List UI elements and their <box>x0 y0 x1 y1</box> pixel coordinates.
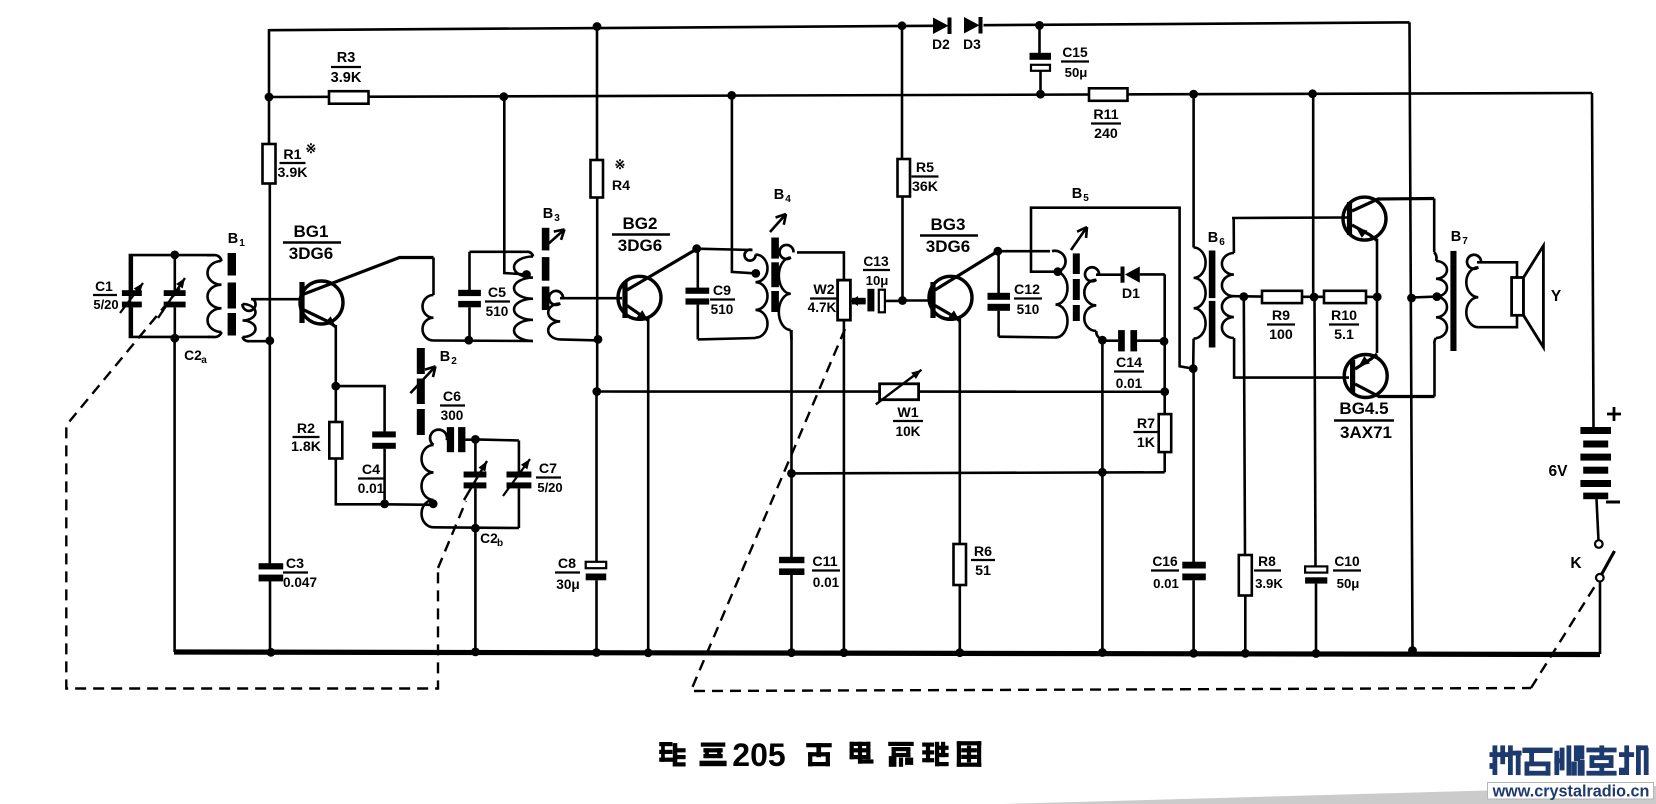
diode D2 <box>933 18 952 35</box>
watermark 矿石收音机 <box>1490 745 1649 775</box>
label C2a <box>184 348 207 366</box>
gang dash: tuning C2a-C2b <box>66 288 466 688</box>
svg-text:C2: C2 <box>184 348 202 363</box>
label C2b <box>480 531 503 549</box>
label BG3 3DG6 <box>920 215 978 256</box>
label R5 36K <box>912 160 939 195</box>
capacitor C9 <box>686 249 710 340</box>
wire: AGC bus (W1 wire) <box>597 390 1165 393</box>
wire: tap link <box>1412 295 1437 298</box>
svg-text:C15: C15 <box>1062 45 1088 60</box>
wire: R10 to emitter node <box>1366 295 1377 298</box>
label W2 4.7K <box>808 282 838 315</box>
wire: C2b box right upper <box>518 441 521 473</box>
transformer B5 secondary coil <box>1084 267 1102 339</box>
resistor R7 <box>1159 414 1172 452</box>
wire: B4 tap to supply <box>732 96 756 274</box>
wire: R9-R10 link <box>1302 295 1324 298</box>
label R4 asterisk <box>615 157 626 172</box>
resistor R11 <box>1089 88 1128 101</box>
watermark www.crystalradio.cn <box>1492 783 1650 801</box>
svg-text:D2: D2 <box>932 37 950 52</box>
transistor BG4.5 lower <box>1344 354 1434 398</box>
transformer B7 core <box>1450 251 1456 351</box>
svg-text:a: a <box>201 355 207 366</box>
svg-text:C12: C12 <box>1014 282 1040 298</box>
node: W2 ground <box>840 648 849 657</box>
node: B1 secondary bottom junction <box>265 336 274 345</box>
node: supply ground end <box>1408 646 1417 655</box>
transformer B4 secondary coil <box>779 245 794 340</box>
wire: B3 secondary bottom <box>560 339 599 340</box>
node: C2a top <box>170 251 179 260</box>
wire: B6 primary bottom <box>1192 339 1195 369</box>
svg-text:R4: R4 <box>612 178 630 194</box>
wire: supply drop x=1410 <box>1410 22 1413 650</box>
variable capacitor C2b <box>464 439 487 528</box>
oscillator coil (B2 winding) <box>422 430 448 528</box>
node: B3 sec bottom junction <box>594 335 603 344</box>
resistor R8 <box>1239 555 1252 596</box>
label R6 51 <box>971 544 995 579</box>
wire: B5 secondary top to D1 <box>1096 273 1121 276</box>
svg-text:100: 100 <box>1269 327 1293 343</box>
svg-text:30μ: 30μ <box>556 577 579 592</box>
svg-text:※: ※ <box>306 141 317 156</box>
svg-text:C6: C6 <box>443 389 461 405</box>
node: B7 center tap <box>1433 292 1442 301</box>
transistor BG3 <box>929 251 998 321</box>
svg-text:R6: R6 <box>974 544 992 560</box>
gang dash: W2-switch K <box>691 329 1598 691</box>
svg-text:10K: 10K <box>896 424 921 439</box>
label B4 <box>774 187 791 205</box>
node: C2b bottom (B) <box>471 524 480 533</box>
wire: C2b box bottom <box>434 526 519 529</box>
transformer B1 core <box>228 253 236 336</box>
svg-text:R9: R9 <box>1272 308 1290 324</box>
wire: R7 bottom lead <box>1163 452 1166 472</box>
node: C11 ground <box>787 648 796 657</box>
svg-text:C11: C11 <box>812 554 837 570</box>
watermark gray band <box>1003 783 1656 804</box>
wire: second supply rail <box>269 93 1592 97</box>
wire: tank bottom <box>434 339 534 342</box>
svg-text:D1: D1 <box>1122 286 1140 302</box>
svg-text:BG1: BG1 <box>294 222 329 241</box>
svg-text:51: 51 <box>975 563 991 579</box>
label battery plus <box>1607 407 1621 421</box>
label Y <box>1551 288 1562 305</box>
wire: C12 bottom to coil <box>999 335 1057 338</box>
wire: bias feed drop x=1314 <box>1312 94 1315 297</box>
node: C2b top (A) <box>471 435 480 444</box>
svg-text:W1: W1 <box>897 405 918 421</box>
capacitor C12 <box>988 251 1011 337</box>
svg-text:1K: 1K <box>1137 435 1156 451</box>
wire: R5 bottom to BG3 base <box>901 197 904 301</box>
label R1 asterisk <box>306 141 317 156</box>
svg-text:R3: R3 <box>337 50 356 66</box>
label C9 510 <box>710 283 735 317</box>
node: R6 ground <box>955 648 964 657</box>
svg-text:7: 7 <box>1462 236 1468 247</box>
wire: BG3 collector to B5 <box>998 250 1050 253</box>
svg-text:240: 240 <box>1094 126 1118 142</box>
svg-text:D3: D3 <box>963 37 981 52</box>
label R7 1K <box>1134 416 1159 451</box>
wire: tap stub <box>1234 295 1262 298</box>
resistor R5 line <box>901 26 904 159</box>
svg-text:B: B <box>1451 229 1461 245</box>
svg-text:5.1: 5.1 <box>1334 327 1354 343</box>
svg-text:0.01: 0.01 <box>813 575 840 590</box>
label R9 100 <box>1267 308 1295 343</box>
transformer B7 secondary coil <box>1466 255 1481 327</box>
transistor BG2 <box>618 249 697 321</box>
label C8 30u <box>555 556 580 592</box>
wire: top supply rail <box>269 22 1410 30</box>
svg-text:BG4.5: BG4.5 <box>1339 399 1388 418</box>
svg-text:C13: C13 <box>863 254 889 269</box>
node: BG3 base node <box>898 296 907 305</box>
node: AGC takeoff <box>787 469 796 478</box>
svg-text:C8: C8 <box>558 556 576 572</box>
resistor R1 <box>263 144 276 184</box>
svg-text:4: 4 <box>785 194 791 205</box>
node: B3 primary tap <box>522 270 531 279</box>
wire: C2b to ground <box>474 528 477 652</box>
resistor R9 <box>1262 291 1302 303</box>
B5 feedback box <box>1031 208 1193 369</box>
svg-text:3.9K: 3.9K <box>331 70 362 86</box>
resistor R3 <box>329 91 369 104</box>
node: C2a bottom <box>170 334 179 343</box>
wire: tap to supply <box>504 97 526 275</box>
svg-text:B: B <box>1208 230 1218 246</box>
svg-text:0.01: 0.01 <box>1153 576 1179 591</box>
svg-text:3DG6: 3DG6 <box>618 236 662 255</box>
node: osc coil tap <box>429 499 438 508</box>
capacitor C5 <box>458 252 481 340</box>
transformer B2 core <box>417 348 425 435</box>
label R11 240 <box>1091 107 1121 142</box>
label C4 0.01 <box>358 462 385 496</box>
tickler winding <box>423 295 434 341</box>
node: C8 ground <box>592 648 601 657</box>
svg-text:b: b <box>497 538 503 549</box>
svg-text:K: K <box>1570 555 1582 572</box>
svg-text:C5: C5 <box>488 285 506 301</box>
svg-text:B: B <box>440 349 450 365</box>
tuning arrow B2 <box>410 366 435 393</box>
node: supply to B7 tap <box>1407 294 1416 303</box>
label BG4.5 3AX71 <box>1334 399 1394 442</box>
svg-text:3DG6: 3DG6 <box>289 244 333 263</box>
svg-text:R1: R1 <box>283 147 301 163</box>
svg-text:C14: C14 <box>1116 355 1142 371</box>
svg-text:205: 205 <box>732 737 785 773</box>
wire: W2 bottom to ground <box>843 320 846 652</box>
wire: lower collector to B7 <box>1433 344 1436 397</box>
resistor R2 <box>329 422 342 459</box>
capacitor C14 <box>1102 330 1164 351</box>
wire: R8 drop <box>1244 297 1245 555</box>
wire: switch to ground <box>1599 582 1602 655</box>
node: AGC wire left end <box>592 387 601 396</box>
wire: B4 secondary bottom drop <box>790 330 793 473</box>
node: emitters junction <box>1373 293 1382 302</box>
wire: B6 sec top to upper base <box>1232 216 1347 219</box>
node: BG2 collector node <box>692 244 701 253</box>
label B3 <box>543 206 560 224</box>
wire: AGC lower bus <box>792 472 1165 473</box>
wire: B6 primary feed <box>1192 94 1195 248</box>
node: R8 ground <box>1241 649 1250 658</box>
label B6 <box>1208 230 1225 248</box>
label BG1 3DG6 <box>283 222 341 263</box>
wire: battery feed <box>1592 93 1594 427</box>
svg-text:36K: 36K <box>912 179 939 195</box>
svg-text:0.01: 0.01 <box>358 481 385 496</box>
capacitor C3 <box>259 563 284 652</box>
wire: tank top <box>470 251 523 254</box>
svg-text:0.01: 0.01 <box>1116 376 1143 391</box>
capacitor C16 <box>1182 562 1206 653</box>
label B7 <box>1451 229 1468 247</box>
svg-text:B: B <box>543 206 553 222</box>
svg-text:C10: C10 <box>1334 554 1360 569</box>
wire: R8 to ground <box>1244 596 1247 654</box>
label R1 3.9K <box>278 147 309 181</box>
node: C14 left <box>1098 336 1107 345</box>
label C5 510 <box>485 285 510 319</box>
transformer B3 secondary coil <box>548 291 563 340</box>
wire: B4 sec drop to C11 <box>790 473 793 557</box>
svg-text:50μ: 50μ <box>1337 576 1360 591</box>
resistor R4 line <box>596 27 599 160</box>
svg-text:R5: R5 <box>916 160 934 176</box>
battery 6V <box>1580 427 1611 499</box>
capacitor C13 (electrolytic) <box>867 289 902 313</box>
wire: speaker top lead <box>1477 262 1517 277</box>
wire: R4 bottom to AGC node <box>596 198 599 392</box>
node: rails junction <box>265 93 274 102</box>
wire: emitter node to C4 <box>336 386 385 432</box>
tuning arrow B5 <box>1071 227 1087 250</box>
node: B6 center tap <box>1239 292 1248 301</box>
diode D1 <box>1121 267 1165 283</box>
capacitor C1 (trimmer) <box>120 255 143 337</box>
svg-text:10μ: 10μ <box>866 273 889 288</box>
svg-text:2: 2 <box>451 356 457 367</box>
node: R5 top <box>898 21 907 30</box>
node: C2b ground <box>471 648 480 657</box>
wire: C9 tank bottom <box>698 338 756 339</box>
transformer B4 primary coil <box>745 250 768 338</box>
label C14 0.01 <box>1114 355 1144 391</box>
wire: x=1314 down to C10 <box>1315 297 1316 566</box>
svg-text:C16: C16 <box>1152 554 1178 569</box>
transistor BG1 <box>299 258 433 328</box>
capacitor C8 (electrolytic) <box>586 562 607 652</box>
node: detector ground <box>1098 648 1107 657</box>
wire: R6 to ground <box>958 585 961 652</box>
svg-text:300: 300 <box>441 408 464 423</box>
node: C10 ground <box>1312 649 1321 658</box>
svg-text:3DG6: 3DG6 <box>926 237 970 256</box>
svg-text:C9: C9 <box>713 283 731 299</box>
label C16 0.01 <box>1151 554 1179 591</box>
wire: lower emitter rise <box>1376 297 1379 353</box>
svg-text:510: 510 <box>1017 302 1040 317</box>
resistor R10 <box>1324 291 1366 303</box>
svg-text:510: 510 <box>711 302 734 317</box>
svg-text:C1: C1 <box>95 279 113 294</box>
label B1 <box>228 231 245 249</box>
label BG2 3DG6 <box>612 214 670 255</box>
node: R4 top <box>593 22 602 31</box>
svg-text:3.9K: 3.9K <box>1255 576 1283 591</box>
wire: tank bottom to ground left end <box>173 338 176 652</box>
tuning arrow B3 <box>549 229 565 243</box>
resistor R6 <box>954 544 967 585</box>
svg-text:R8: R8 <box>1258 554 1276 569</box>
variable capacitor C2a <box>158 254 186 340</box>
label C12 510 <box>1014 282 1042 317</box>
svg-text:Y: Y <box>1551 288 1562 305</box>
wire: detector line down <box>1101 340 1104 472</box>
svg-text:6: 6 <box>1219 237 1225 248</box>
label D1 <box>1122 286 1140 302</box>
wire: R2 bottom corner <box>336 459 385 505</box>
label C3 0.047 <box>283 556 317 590</box>
label C6 300 <box>440 389 465 423</box>
wiper W2 <box>850 296 865 306</box>
wire: D1 drop <box>1163 274 1166 341</box>
wire: left rail drop x=269 <box>268 29 271 97</box>
resistor R4 <box>591 160 604 198</box>
label C7 5/20 <box>536 461 563 495</box>
svg-text:50μ: 50μ <box>1065 65 1088 80</box>
svg-text:5/20: 5/20 <box>93 297 118 312</box>
svg-text:C2: C2 <box>480 531 498 546</box>
svg-text:R10: R10 <box>1331 308 1357 324</box>
title text 群益205型电原理图 <box>659 737 981 773</box>
svg-text:R2: R2 <box>297 421 315 437</box>
svg-text:5/20: 5/20 <box>537 480 562 495</box>
svg-text:www.crystalradio.cn: www.crystalradio.cn <box>1492 783 1650 801</box>
node: BG2 emitter ground <box>644 648 653 657</box>
node: R7 top node <box>1160 387 1169 396</box>
capacitor C15 (electrolytic) <box>1030 25 1052 94</box>
capacitor C11 <box>779 557 804 652</box>
label C13 10u <box>863 254 890 288</box>
switch K <box>1595 540 1615 581</box>
wire: detector to ground <box>1101 472 1104 652</box>
variable capacitor C7 <box>503 459 531 496</box>
transformer B6 primary coil <box>1194 248 1206 339</box>
node: BG3 collector node <box>993 247 1002 256</box>
label R2 1.8K <box>291 421 322 455</box>
wire: R2/C4 bus to osc coil tap <box>385 503 434 506</box>
transformer B1 primary coil <box>207 255 222 337</box>
node: detector T <box>1098 468 1107 477</box>
svg-text:0.047: 0.047 <box>283 575 317 590</box>
svg-text:1.8K: 1.8K <box>291 439 322 455</box>
svg-text:1: 1 <box>239 238 245 249</box>
wire: B3 secondary top to BG2 base <box>560 297 622 300</box>
wire: D1 line to R7 node <box>1163 341 1166 391</box>
wire: BG1 emitter drop <box>334 325 337 386</box>
speaker Y <box>1512 246 1544 348</box>
svg-text:510: 510 <box>486 304 509 319</box>
wire: speaker bottom lead <box>1478 315 1517 327</box>
svg-text:6V: 6V <box>1549 463 1569 480</box>
wire: B6 sec bottom to lower base <box>1234 338 1349 378</box>
ground bus (thick) <box>174 652 1600 655</box>
node: C4 bottom <box>380 500 389 509</box>
node: B5 primary tap <box>1053 267 1062 276</box>
svg-text:B: B <box>1072 186 1082 202</box>
svg-text:C3: C3 <box>286 556 304 572</box>
svg-text:B: B <box>774 187 784 203</box>
wire: B6 bottom to C16 <box>1192 369 1195 562</box>
resistor R5 <box>898 159 911 197</box>
svg-text:BG2: BG2 <box>623 214 658 233</box>
node: C15 bottom <box>1036 90 1045 99</box>
svg-text:R11: R11 <box>1093 107 1118 123</box>
potentiometer W2 <box>838 280 851 320</box>
label C11 0.01 <box>812 554 840 590</box>
label R10 5.1 <box>1329 308 1359 343</box>
label W1 10K <box>893 405 923 439</box>
wire: emitter node to R2 <box>334 386 337 422</box>
label R8 3.9K <box>1254 554 1283 591</box>
node: C5 bottom <box>464 336 473 345</box>
potentiometer W1 <box>876 370 922 405</box>
svg-text:C4: C4 <box>362 462 380 478</box>
transformer B5 primary coil <box>1052 251 1068 338</box>
svg-text:BG3: BG3 <box>931 215 966 234</box>
svg-text:W2: W2 <box>813 282 834 298</box>
label battery minus <box>1606 501 1620 504</box>
node: supply tap junction <box>499 92 508 101</box>
label D2 <box>932 37 950 52</box>
node: B6 bottom junction <box>1189 364 1198 373</box>
label B2 <box>440 349 457 367</box>
label C1 5/20 <box>93 279 119 312</box>
wire: base node to BG3 <box>902 299 929 302</box>
diode D3 <box>964 17 983 34</box>
transformer B3 core <box>542 228 550 310</box>
wire: R1 bottom to C3 <box>268 184 271 565</box>
label B5 <box>1072 186 1089 204</box>
svg-text:B: B <box>228 231 238 247</box>
label R4 <box>612 178 630 194</box>
wire: C9 tank top <box>697 249 753 250</box>
label K <box>1570 555 1582 572</box>
wire: BG2 emitter to ground <box>647 319 650 653</box>
node: B6 supply junction <box>1189 90 1198 99</box>
wire: B4 secondary top to W2 <box>797 252 844 280</box>
node: B4 supply junction <box>727 91 736 100</box>
svg-text:5: 5 <box>1083 193 1089 204</box>
svg-text:3AX71: 3AX71 <box>1340 423 1392 442</box>
svg-text:3.9K: 3.9K <box>278 165 309 181</box>
wire: battery to switch <box>1597 499 1599 540</box>
wire: BG3 emitter drop <box>958 319 961 545</box>
